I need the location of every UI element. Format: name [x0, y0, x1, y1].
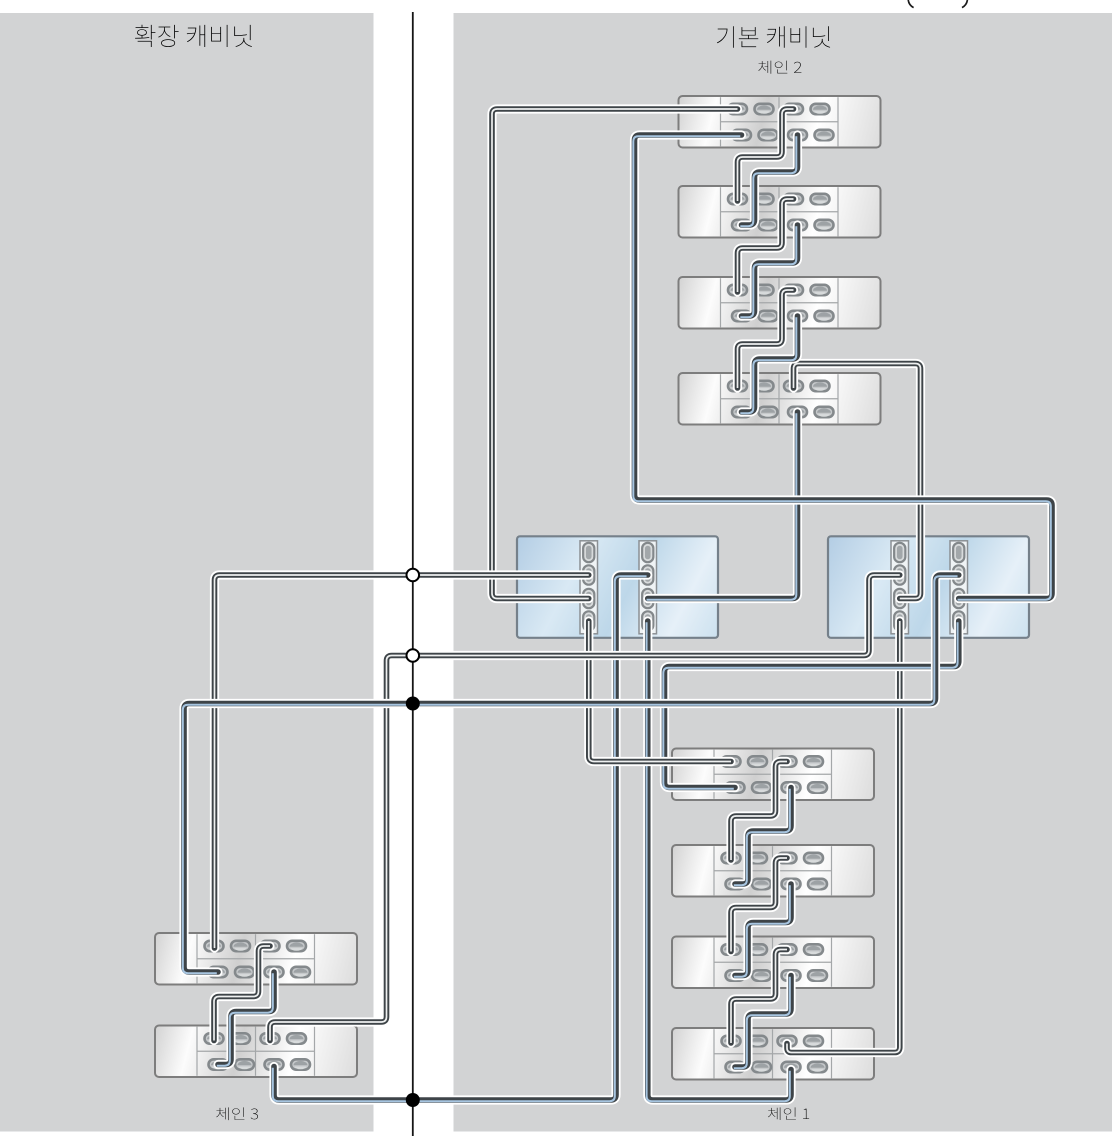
wire controller2 slot1 port4 to chain1 shelf4 top-port3 (dark) [787, 621, 900, 1053]
wire chain1 shelf2 top-port3 to shelf3 top-port1 (dark) [731, 858, 787, 952]
label 기본 캐비닛 (base cabinet) [717, 26, 830, 48]
wire controller2 slot2 port2 to chain3 shelf1 bottom-port1 (blue) [183, 575, 959, 973]
node: junction dot bottom [406, 1093, 420, 1107]
cut-off title paren left [908, 0, 913, 8]
left cabinet panel (확장 캐비닛) [0, 13, 374, 1132]
disk shelf chain1-3 [672, 937, 874, 989]
node: junction dot upper [406, 697, 420, 711]
cabinet divider line [412, 12, 414, 1136]
wire chain1 shelf3 top-port3 to shelf4 top-port1 (dark) [731, 950, 787, 1044]
wire chain2 shelf1 top-port3 to shelf2 top-port1 (dark) [738, 109, 794, 201]
wire chain2 shelf3 bottom-port3 to shelf4 bottom-port1 (blue) [740, 316, 797, 413]
wire chain1 shelf2 bottom-port3 to shelf3 bottom-port1 (blue) [734, 884, 791, 977]
wire chain2 shelf1 bottom-port1 to controller2 slot2 port3 (blue) [633, 135, 1052, 600]
controller 1 (left) [517, 536, 718, 638]
wire chain2 shelf1 bottom-port3 to shelf2 bottom-port1 (blue) [740, 135, 797, 226]
wire controller1 slot2 port2 to chain3 shelf2 bottom-port3 (blue) [273, 575, 648, 1101]
disk shelf chain3-1 [155, 933, 357, 985]
wire chain1 shelf3 bottom-port3 to shelf4 bottom-port1 (blue) [734, 976, 791, 1069]
wire controller2 slot2 port4 to chain1 shelf1 bottom-port1 (blue) [663, 621, 959, 789]
wire chain2 shelf4 bottom-port3 to controller1 slot2 port3 (blue) [647, 412, 798, 600]
disk shelf chain2-2 [679, 186, 881, 238]
controller 2 (right) [828, 536, 1029, 638]
right cabinet panel (기본 캐비닛) [454, 13, 1112, 1132]
wire chain2 shelf2 top-port3 to shelf3 top-port1 (dark) [738, 199, 794, 292]
disk shelf chain1-4 [672, 1028, 874, 1080]
wire chain3 shelf1 bottom-port3 to shelf2 bottom-port1 (blue) [217, 972, 274, 1066]
disk shelf chain1-2 [672, 845, 874, 897]
node: cabinet crossing (open circle, upper) [407, 569, 420, 582]
disk shelf chain3-2 [155, 1026, 357, 1078]
label 체인 3 (chain 3) [216, 1107, 258, 1120]
label 확장 캐비닛 (expansion cabinet) [135, 25, 252, 47]
disk shelf chain1-1 [672, 749, 874, 801]
disk shelf chain2-1 [679, 96, 881, 148]
wire controller2 slot1 port2 to chain3 shelf2 top-port3 (dark) [270, 575, 900, 1041]
wire controller1 slot2 port4 to chain1 shelf4 bottom-port3 (blue) [647, 621, 791, 1101]
wire chain1 shelf1 bottom-port3 to shelf2 bottom-port1 (blue) [734, 788, 791, 886]
label 체인 1 (chain 1) [768, 1107, 809, 1120]
wire chain2 shelf4 top-port3 to controller2 slot1 port3 (dark) [794, 364, 921, 599]
wire controller1 slot1 port2 to chain3 shelf1 top-port1 (dark) [215, 575, 589, 948]
disk shelf chain2-3 [679, 277, 881, 329]
cut-off title paren right [962, 0, 967, 8]
wire chain2 shelf1 top-port1 to controller1 slot1 port3 (dark) [492, 109, 738, 599]
node: cabinet crossing (open circle, lower) [407, 649, 420, 662]
wire chain2 shelf3 top-port3 to shelf4 top-port1 (dark) [738, 290, 794, 388]
wire chain1 shelf1 top-port3 to shelf2 top-port1 (dark) [731, 762, 787, 861]
wire chain3 shelf1 top-port3 to shelf2 top-port1 (dark) [214, 946, 270, 1041]
label 체인 2 (chain 2) [758, 61, 801, 74]
wire controller1 slot1 port4 to chain1 shelf1 top-port1 (dark) [589, 621, 731, 762]
wire chain2 shelf2 bottom-port3 to shelf3 bottom-port1 (blue) [740, 225, 797, 317]
disk shelf chain2-4 [679, 373, 881, 425]
